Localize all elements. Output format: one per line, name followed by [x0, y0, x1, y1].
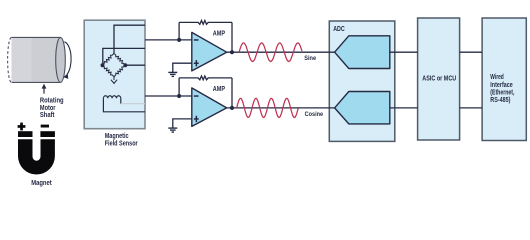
cosine signal waveform [237, 98, 299, 117]
svg-text:ADC: ADC [333, 26, 345, 33]
wire sensor output to op-amp U2 inverting input [145, 95, 192, 97]
svg-text:(Ethernet,: (Ethernet, [490, 90, 514, 97]
wheatstone bridge resistor bottom-right arm [114, 65, 125, 77]
ADC1 converter symbol [335, 36, 390, 69]
wire op-amp U1 output to ADC1 input [227, 51, 335, 53]
svg-text:Motor: Motor [40, 105, 56, 112]
wire ASIC to wired interface (bottom) [460, 107, 483, 109]
magnet minus pole mark [41, 125, 49, 128]
magnet pole caps [18, 131, 55, 137]
wire sensor output to op-amp U1 inverting input [145, 39, 192, 41]
ADC2 converter symbol [335, 92, 390, 124]
inductor L1 coil [103, 96, 145, 112]
ASIC or MCU box [418, 18, 460, 140]
svg-text:Sine: Sine [304, 55, 316, 62]
svg-text:Shaft: Shaft [40, 112, 55, 119]
magnet plus pole mark [18, 123, 26, 131]
wheatstone bridge resistor top-left arm [103, 53, 115, 65]
wire ASIC to wired interface (top) [460, 51, 483, 53]
wire ADC1 to ASIC [390, 51, 418, 53]
pointer arrow to shaft [42, 84, 47, 94]
feedback resistor R1 loop of op-amp U1 [179, 21, 232, 53]
wire op-amp U2 output to ADC2 input [227, 107, 335, 109]
svg-text:Magnetic: Magnetic [105, 133, 129, 140]
op-amp U1 (AMP) [192, 31, 227, 71]
svg-text:Field Sensor: Field Sensor [105, 141, 138, 148]
svg-text:Cosine: Cosine [305, 111, 324, 118]
wired interface box [482, 18, 526, 141]
svg-text:Rotating: Rotating [40, 98, 64, 105]
svg-text:Wired: Wired [490, 74, 504, 81]
bridge output arrow [111, 77, 117, 84]
node U2 output junction [230, 106, 234, 110]
ground symbol at op-amp U2 non-inverting input [168, 119, 192, 132]
label Magnetic Field Sensor [105, 133, 138, 147]
wheatstone bridge resistor bottom-left arm [103, 65, 115, 77]
wheatstone bridge resistor top-right arm [114, 53, 125, 65]
shaft rotation arrow [63, 42, 71, 79]
ADC box [329, 21, 395, 141]
label Wired Interface (Ethernet, RS-485) [490, 74, 514, 104]
magnet U body [18, 139, 55, 174]
node U2 input junction [177, 94, 181, 98]
node U1 input junction [177, 38, 181, 42]
wire bridge right vertex to box edge [125, 64, 145, 66]
feedback resistor R2 loop of op-amp U2 [179, 76, 232, 108]
svg-text:Interface: Interface [490, 82, 513, 89]
wire bridge left vertex to box edge [103, 48, 145, 64]
inductor L1 light return wire [121, 103, 145, 105]
node U1 output junction [230, 50, 234, 54]
label Rotating Motor Shaft [40, 98, 64, 119]
svg-text:Magnet: Magnet [31, 180, 52, 187]
node bridge right vertex [123, 63, 127, 67]
svg-text:ASIC or MCU: ASIC or MCU [422, 76, 456, 83]
svg-text:AMP: AMP [213, 31, 226, 38]
wire bridge top vertex to box edge [114, 25, 145, 53]
rotating motor shaft cylinder [8, 37, 66, 82]
sine signal waveform [239, 43, 302, 62]
svg-text:RS-485): RS-485) [490, 97, 510, 104]
magnetic field sensor box [84, 20, 145, 129]
node bridge left vertex [101, 63, 105, 67]
ground symbol at op-amp U1 non-inverting input [168, 63, 192, 76]
svg-text:AMP: AMP [213, 86, 226, 93]
op-amp U2 (AMP) [192, 86, 227, 126]
wire ADC2 to ASIC [390, 107, 418, 109]
